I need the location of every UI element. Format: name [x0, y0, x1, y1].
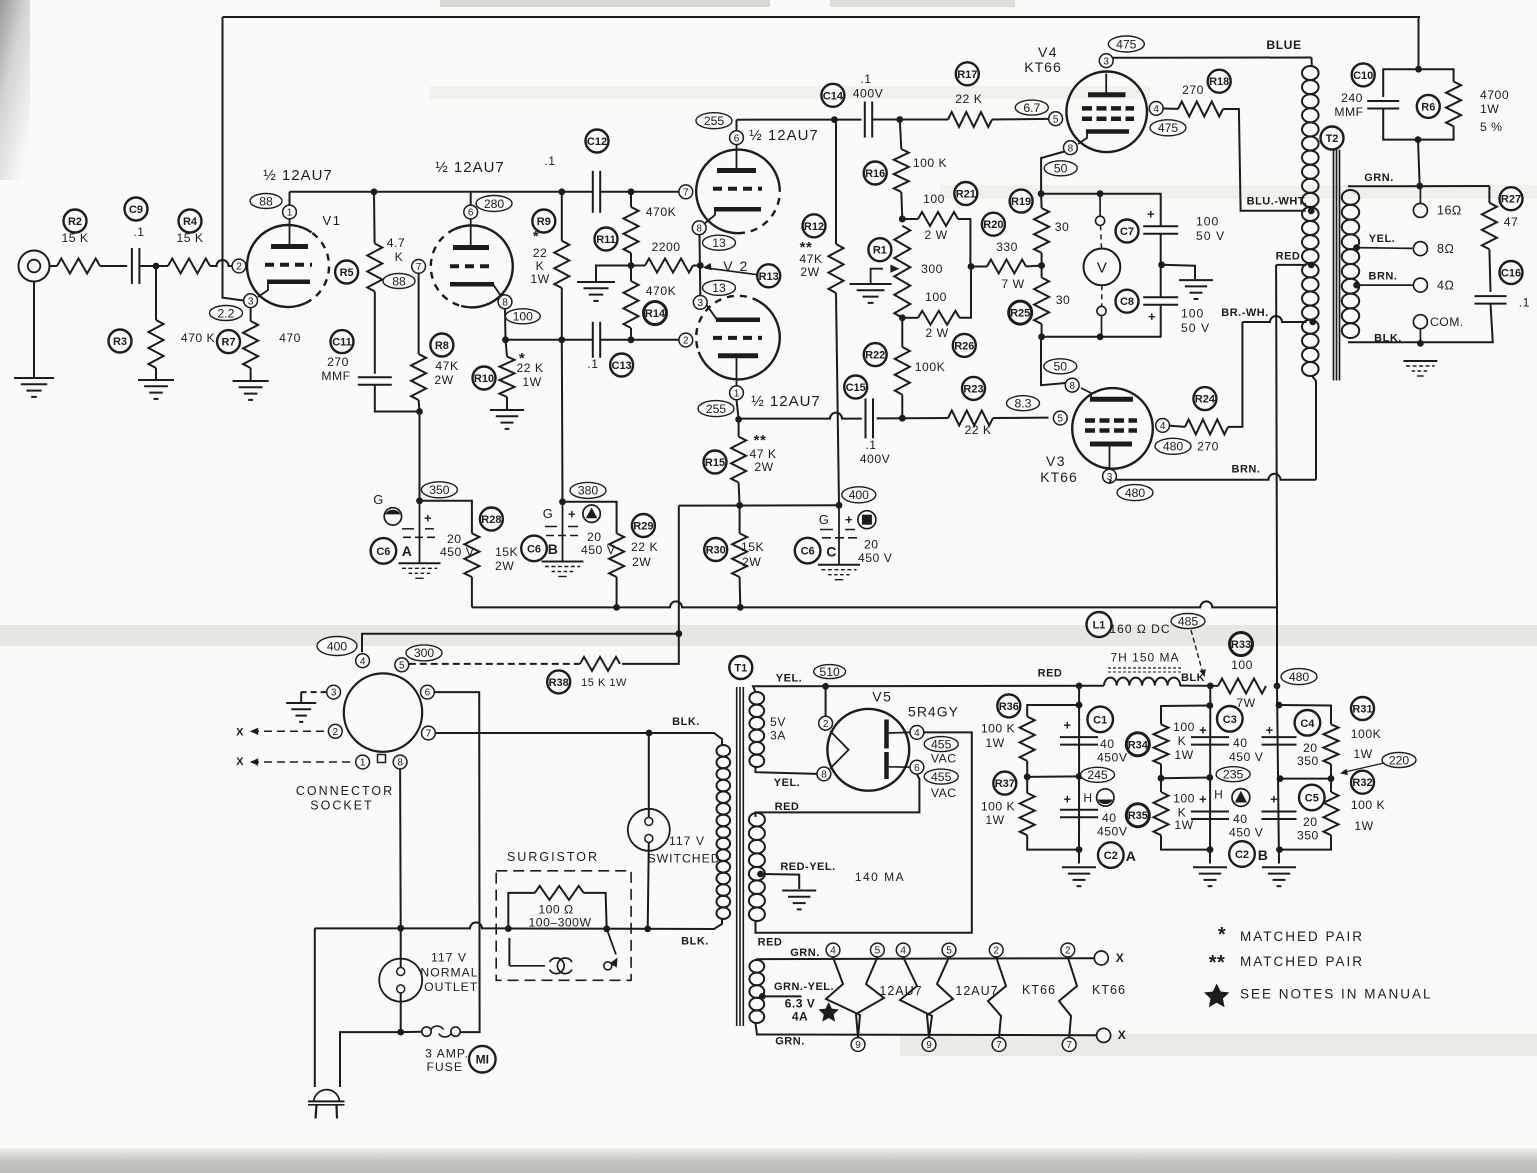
socket key: [378, 755, 386, 763]
wire: [630, 253, 632, 266]
svg-text:270: 270: [1197, 439, 1219, 453]
external lead arrow 2: [250, 758, 356, 765]
svg-text:RED: RED: [758, 937, 783, 949]
svg-text:C5: C5: [1305, 793, 1319, 805]
svg-text:5R4GY: 5R4GY: [908, 703, 959, 719]
wire: [1279, 705, 1331, 724]
svg-text:50: 50: [1054, 162, 1068, 176]
label RED: [1038, 668, 1063, 680]
wire R18 to BLU-WHT tap: [1223, 109, 1306, 211]
node 280: [476, 196, 512, 212]
label R19: [1010, 190, 1033, 213]
wire C3 column: [1209, 686, 1211, 864]
label BRN.: [1369, 271, 1398, 283]
pin 4 V4: [1149, 102, 1163, 116]
choke L1 underline: [1108, 668, 1182, 672]
wire: [504, 309, 507, 340]
label 47: [1504, 215, 1519, 229]
wire: [960, 267, 971, 318]
tube V1 (triode a): [247, 225, 329, 307]
capacitor C6C: [820, 505, 857, 564]
svg-text:15 K 1W: 15 K 1W: [581, 677, 627, 689]
wire: [631, 265, 645, 267]
node 8.3: [1007, 396, 1040, 411]
svg-text:MATCHED PAIR: MATCHED PAIR: [1240, 954, 1364, 969]
wire: [373, 192, 376, 244]
label 50 V: [1196, 229, 1225, 243]
svg-text:H: H: [1083, 791, 1092, 805]
svg-text:100: 100: [513, 310, 534, 324]
label VAC: [931, 786, 957, 800]
svg-text:470 K: 470 K: [181, 331, 215, 345]
wire: [1027, 705, 1079, 717]
svg-text:MATCHED PAIR: MATCHED PAIR: [1240, 929, 1364, 944]
junction: [735, 416, 742, 423]
label 22 K: [631, 540, 658, 554]
label 20: [447, 532, 462, 546]
svg-text:BLK: BLK: [1181, 672, 1205, 684]
junction: [1038, 190, 1045, 197]
wire R24 to BR-WH: [1228, 322, 1242, 427]
resistor R7: [243, 321, 258, 368]
svg-text:2 W: 2 W: [925, 326, 948, 340]
pin 7 V2a: [679, 185, 693, 199]
resistor R19: [1034, 208, 1049, 253]
electrolytic C2A polarity: [1097, 789, 1114, 806]
label C12: [586, 130, 609, 153]
pin 5 socket: [395, 658, 409, 672]
svg-text:V: V: [1097, 260, 1107, 277]
svg-text:T2: T2: [1326, 133, 1339, 145]
junction: [1024, 774, 1031, 781]
capacitor C4: [1262, 737, 1297, 745]
svg-text:3: 3: [1103, 56, 1109, 67]
label .1: [1519, 295, 1530, 309]
label 2W: [742, 555, 761, 569]
junction YEL tap: [1353, 244, 1360, 251]
wire grid return: [418, 273, 420, 354]
svg-text:5 %: 5 %: [1480, 120, 1503, 134]
label C5: [1299, 785, 1325, 811]
wire to V4 grid: [992, 118, 1049, 121]
wire plate1 loop RED: [756, 732, 972, 932]
label X: [1116, 951, 1125, 965]
label .1: [133, 225, 144, 239]
resistor R3: [149, 320, 164, 368]
node 50: [1044, 359, 1077, 374]
tube V5: [827, 709, 909, 791]
label 2W: [754, 460, 773, 474]
label R34: [1126, 733, 1149, 756]
svg-text:3A: 3A: [770, 729, 786, 743]
svg-text:R16: R16: [865, 168, 885, 180]
svg-text:R35: R35: [1128, 810, 1148, 822]
junction: [416, 497, 423, 504]
capacitor C6B: [545, 502, 579, 562]
node 13: [703, 235, 736, 250]
wire: [1026, 761, 1028, 777]
label R25: [1009, 301, 1032, 324]
wire feedback to V1 cathode: [223, 17, 246, 301]
wire: [1027, 775, 1079, 778]
label ½ 12AU7: [263, 167, 333, 184]
junction: [1277, 775, 1284, 782]
tube V2b grid: [713, 336, 762, 340]
junction: [628, 188, 635, 195]
node 2.2: [210, 306, 243, 321]
wire: [563, 502, 617, 534]
label R2: [64, 210, 87, 233]
wire pin6 drop to fuse: [434, 692, 479, 1032]
pin 4 heater b: [896, 943, 910, 957]
resistor R24: [1185, 419, 1228, 434]
svg-text:100 K: 100 K: [981, 722, 1015, 736]
svg-text:GRN.-YEL.: GRN.-YEL.: [774, 981, 834, 993]
svg-text:R4: R4: [183, 216, 198, 228]
svg-text:C14: C14: [823, 90, 844, 102]
node 480: [1155, 438, 1191, 454]
svg-text:480: 480: [1125, 486, 1146, 500]
svg-text:RED: RED: [775, 801, 800, 813]
wire BR-WH tap (hops B+ drop): [1242, 316, 1306, 322]
label 30: [1055, 220, 1070, 234]
svg-text:5: 5: [875, 946, 881, 957]
label R38: [547, 670, 570, 693]
junction: [1158, 261, 1165, 268]
junction: [836, 502, 843, 509]
tube V1b plate: [453, 220, 489, 248]
label COM.: [1430, 315, 1464, 329]
svg-text:G: G: [373, 492, 384, 507]
svg-text:3: 3: [698, 298, 704, 309]
pin 5 heater b: [942, 943, 956, 957]
junction: [558, 336, 565, 343]
label 100 K: [981, 800, 1015, 814]
svg-text:2: 2: [1065, 946, 1071, 957]
tube V1 plate: [271, 219, 308, 247]
capacitor C9: [132, 248, 140, 284]
tube V5 plate 2: [887, 752, 910, 779]
label B: [548, 541, 559, 557]
svg-text:3 AMP.: 3 AMP.: [425, 1047, 469, 1061]
label +: [845, 512, 853, 527]
label 100: [1173, 792, 1195, 806]
label R11: [595, 228, 618, 251]
svg-text:4A: 4A: [792, 1010, 808, 1024]
label .1: [860, 72, 871, 86]
label T2: [1321, 127, 1344, 150]
terminal X top: [1094, 951, 1108, 965]
svg-text:+: +: [1147, 206, 1155, 221]
label 22 K: [964, 423, 991, 437]
label 270: [1197, 439, 1219, 453]
label 2 W: [924, 228, 947, 242]
meter V1: [1084, 225, 1121, 285]
wire: [1041, 253, 1043, 278]
svg-text:240: 240: [1341, 91, 1363, 105]
pin 6 V1b: [464, 205, 478, 219]
label C10: [1352, 63, 1375, 86]
svg-text:V1: V1: [323, 213, 342, 228]
label 300: [921, 262, 943, 276]
svg-text:C16: C16: [1501, 268, 1521, 280]
svg-text:100: 100: [925, 290, 947, 304]
junction: [1076, 702, 1083, 709]
label BLK.: [672, 716, 700, 728]
wire C7 to C8: [1160, 234, 1162, 297]
label 20: [864, 538, 879, 552]
svg-text:K: K: [536, 259, 545, 273]
wire BRN V3 plate to T2: [1116, 474, 1316, 480]
svg-text:1W: 1W: [522, 375, 541, 389]
resistor R11: [624, 207, 639, 253]
tube V5 filament: [830, 731, 849, 769]
svg-text:C8: C8: [1120, 296, 1134, 308]
junction: [1207, 683, 1214, 690]
svg-text:20: 20: [864, 538, 879, 552]
wire: [470, 192, 472, 205]
capacitor C16: [1475, 296, 1507, 304]
resistor surgistor 100ohm: [535, 886, 584, 900]
label R15: [704, 451, 727, 474]
svg-text:L1: L1: [1093, 620, 1106, 632]
svg-text:B: B: [1258, 847, 1269, 863]
svg-text:½ 12AU7: ½ 12AU7: [749, 127, 819, 144]
wire: [1180, 685, 1218, 687]
wire: [400, 993, 402, 1032]
transformer T2 secondary coil: [1342, 190, 1359, 338]
tube V3 grid 1: [1085, 418, 1137, 423]
junction: [899, 415, 906, 422]
svg-text:C2: C2: [1104, 850, 1118, 862]
wire: [508, 893, 535, 929]
wire: [561, 192, 563, 241]
label ½ 12AU7: [749, 127, 819, 144]
node 350: [421, 482, 457, 498]
wire: [1419, 69, 1454, 81]
label H: [1214, 788, 1223, 802]
svg-text:YEL.: YEL.: [774, 777, 800, 789]
junction: [1274, 683, 1281, 690]
label 1W: [985, 736, 1004, 750]
svg-text:YEL.: YEL.: [1369, 233, 1395, 245]
svg-text:270: 270: [1182, 83, 1204, 97]
label 40: [1100, 737, 1115, 751]
label V3: [1046, 453, 1066, 469]
svg-text:88: 88: [392, 274, 406, 288]
svg-text:+: +: [1064, 792, 1072, 807]
svg-text:C7: C7: [1120, 226, 1134, 238]
svg-text:7: 7: [426, 729, 432, 740]
label 220 arrow: [1340, 763, 1384, 775]
svg-text:R13: R13: [759, 271, 779, 283]
svg-text:100: 100: [1196, 215, 1219, 229]
label 100: [925, 290, 947, 304]
svg-text:30: 30: [1056, 293, 1071, 307]
svg-text:40: 40: [1102, 811, 1117, 825]
surgistor box: [496, 871, 631, 981]
resistor R34: [1154, 724, 1169, 764]
svg-text:R36: R36: [999, 701, 1019, 713]
svg-text:BLUE: BLUE: [1266, 38, 1301, 52]
meter terminal 2: [1097, 285, 1106, 337]
label ½ 12AU7: [751, 393, 821, 410]
junction: [628, 336, 635, 343]
tube V1 cathode: [258, 282, 310, 297]
svg-text:485: 485: [1178, 614, 1199, 628]
svg-text:15K: 15K: [495, 545, 518, 559]
label BRN.: [1232, 464, 1261, 476]
svg-text:20: 20: [1303, 815, 1318, 829]
node 485: [1171, 614, 1205, 629]
svg-text:22 K: 22 K: [516, 361, 543, 375]
ground: [14, 378, 54, 397]
pin 8 V4: [1064, 141, 1078, 155]
svg-text:.1: .1: [544, 154, 555, 168]
svg-text:455: 455: [931, 737, 952, 751]
label C13: [610, 354, 633, 377]
resistor R8: [411, 354, 426, 400]
label V1: [323, 213, 342, 228]
label 40: [1102, 811, 1117, 825]
resistor R21: [918, 212, 958, 226]
svg-text:R20: R20: [983, 219, 1003, 231]
svg-text:BR.-WH.: BR.-WH.: [1221, 307, 1269, 319]
svg-text:GRN.: GRN.: [790, 947, 820, 959]
label 100 K: [981, 722, 1015, 736]
svg-text:2W: 2W: [434, 373, 453, 387]
transformer T1 5V winding: [749, 692, 764, 767]
pin 1 socket: [356, 755, 370, 769]
svg-text:2200: 2200: [651, 240, 680, 254]
wire R4 to V1 grid (hops feedback): [210, 260, 232, 266]
svg-text:350: 350: [1297, 754, 1319, 768]
ground: [782, 891, 816, 910]
svg-text:330: 330: [996, 240, 1018, 254]
svg-text:C1: C1: [1093, 714, 1107, 726]
label +: [1148, 309, 1156, 324]
choke L1: [1104, 678, 1180, 686]
label 100K: [1351, 727, 1381, 741]
svg-text:R23: R23: [963, 383, 983, 395]
svg-text:475: 475: [1158, 121, 1179, 135]
svg-text:C15: C15: [846, 382, 866, 394]
wire C1 column: [1078, 686, 1080, 864]
svg-text:R26: R26: [954, 340, 974, 352]
tube V1 grid: [265, 263, 312, 267]
svg-text:R11: R11: [596, 234, 616, 246]
svg-text:*: *: [533, 228, 539, 245]
resistor R32: [1324, 792, 1339, 835]
svg-text:C6: C6: [801, 546, 815, 558]
terminal 8 ohm: [1357, 242, 1428, 256]
svg-text:1W: 1W: [985, 813, 1004, 827]
svg-text:8.3: 8.3: [1015, 397, 1032, 411]
label SURGISTOR: [507, 850, 599, 864]
pin 1 V1: [283, 205, 297, 219]
label C11: [331, 330, 354, 353]
svg-text:X: X: [236, 727, 244, 739]
external lead arrow: [250, 728, 328, 735]
label 5R4GY: [908, 703, 959, 719]
label 22 K: [955, 92, 982, 106]
wire 6.3V tap: [762, 995, 801, 997]
wire GRN secondary top: [1348, 185, 1489, 187]
label YEL.: [776, 673, 802, 685]
label NORMAL: [420, 966, 478, 980]
junction: [1076, 846, 1083, 853]
svg-text:*: *: [1218, 924, 1226, 946]
svg-text:R5: R5: [340, 267, 354, 279]
capacitor C15: [866, 398, 874, 438]
pin 8 socket: [393, 755, 407, 769]
svg-text:6.3 V: 6.3 V: [785, 997, 816, 1011]
svg-text:R8: R8: [435, 340, 449, 352]
svg-text:100: 100: [923, 192, 945, 206]
svg-text:470K: 470K: [646, 205, 676, 219]
pin 2 V5: [819, 716, 833, 730]
label 100: [923, 192, 945, 206]
label R29: [632, 514, 655, 537]
svg-text:300: 300: [414, 646, 435, 660]
svg-text:40: 40: [1100, 737, 1115, 751]
svg-text:450 V: 450 V: [440, 545, 475, 559]
resistor R26: [918, 311, 960, 325]
wire heater 12AU7 b4: [900, 957, 932, 1037]
junction BR-WH tap: [1309, 319, 1316, 326]
label C14: [821, 84, 844, 107]
surgistor switch: [604, 929, 618, 970]
label 3A: [770, 729, 786, 743]
svg-text:117 V: 117 V: [669, 834, 705, 848]
junction: [1097, 333, 1104, 340]
label 50 V: [1181, 321, 1210, 335]
junction: [644, 926, 651, 933]
label A: [1126, 848, 1137, 864]
junction: [153, 263, 160, 270]
label 100: [1181, 307, 1204, 321]
wire T2 primary bottom lead: [1312, 376, 1316, 480]
junction: [759, 993, 766, 1000]
svg-text:K: K: [1178, 734, 1187, 748]
svg-text:.1: .1: [587, 357, 598, 371]
svg-text:100: 100: [1181, 307, 1204, 321]
label R12: [803, 214, 826, 237]
svg-text:47K: 47K: [435, 359, 458, 373]
label MMF: [321, 369, 350, 383]
label SWITCHED: [648, 852, 721, 866]
svg-text:4.7: 4.7: [387, 236, 405, 250]
svg-text:BLK.: BLK.: [672, 716, 700, 728]
svg-text:G: G: [543, 506, 554, 521]
svg-text:5V: 5V: [770, 715, 786, 729]
wire jack to ground: [33, 282, 35, 378]
tube V2a plate: [717, 145, 756, 171]
svg-text:1: 1: [734, 388, 740, 399]
label 100 K: [1351, 798, 1385, 812]
label BLU.-WHT.: [1247, 196, 1308, 208]
label C6: [371, 538, 397, 564]
svg-text:8: 8: [696, 223, 702, 234]
label SOCKET: [310, 799, 373, 813]
label OUTLET: [424, 980, 478, 994]
label 450V: [1097, 751, 1128, 765]
svg-text:X: X: [1118, 1028, 1127, 1042]
resistor R28: [464, 533, 479, 577]
junction: [1206, 702, 1213, 709]
label 16Ω: [1437, 203, 1462, 217]
junction: [899, 314, 906, 321]
